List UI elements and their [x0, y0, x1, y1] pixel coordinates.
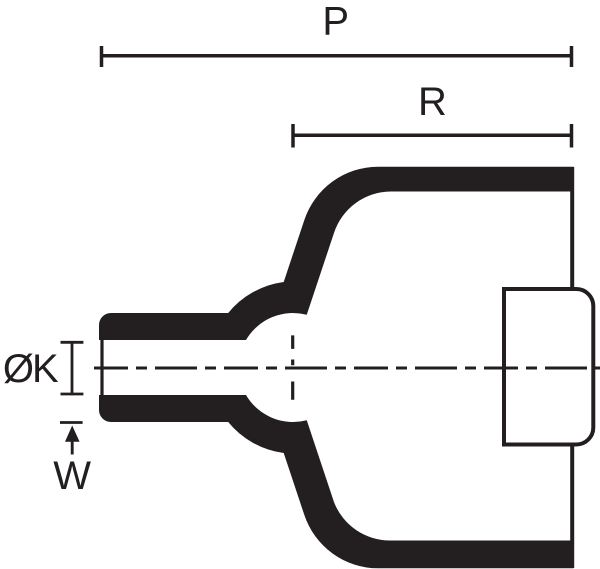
dimension P line — [102, 54, 572, 58]
dimension P left tick — [100, 46, 104, 67]
boot upper wall (tube top band, ball bulge, flare diagonal, bell top band) — [99, 167, 574, 340]
dimension P right tick — [570, 46, 574, 67]
svg-text:W: W — [53, 454, 91, 498]
dimension ØK top tick — [61, 341, 84, 344]
boot lower wall (mirror) — [99, 395, 574, 568]
bell open end (thin line, right) — [570, 167, 574, 568]
svg-text:ØK: ØK — [3, 347, 59, 391]
dimension ØK vertical line — [71, 342, 74, 394]
dimension R left tick — [291, 124, 295, 148]
dimension R right tick — [570, 124, 574, 148]
dimension ØK bottom tick — [61, 393, 84, 396]
svg-text:P: P — [322, 0, 349, 43]
tube open end (thin line, left) — [100, 339, 103, 397]
lip / flange (white filled rounded rect) — [504, 289, 593, 445]
centre line (dash-dot axis) — [94, 367, 600, 370]
dimension W arrow (pointing up) — [65, 426, 80, 442]
dimension W arrow shaft — [71, 441, 74, 455]
svg-text:R: R — [418, 80, 447, 124]
dimension W tick — [60, 421, 83, 424]
vertical dashed centre mark at ball — [291, 335, 294, 399]
dimension R line — [293, 134, 572, 138]
